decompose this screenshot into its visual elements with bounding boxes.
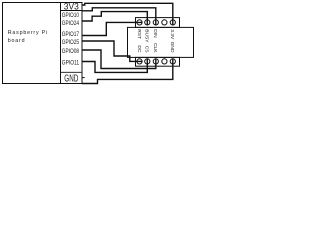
svg-text:Raspberry Pi: Raspberry Pi	[8, 30, 48, 36]
GND pin leg	[82, 77, 85, 79]
wire GND to GND	[82, 59, 173, 84]
svg-text:GPIO24: GPIO24	[62, 20, 80, 27]
wire GPIO11 to CLK	[82, 59, 147, 73]
Raspberry Pi board U1	[3, 3, 61, 84]
svg-text:GPIO17: GPIO17	[62, 31, 80, 38]
svg-text:GPIO11: GPIO11	[62, 60, 80, 67]
svg-text:GPIO08: GPIO08	[62, 48, 80, 55]
svg-text:BUSY: BUSY	[144, 29, 150, 43]
svg-text:GND: GND	[169, 42, 175, 53]
svg-text:GPIO10: GPIO10	[62, 12, 80, 19]
pin DIN circle	[153, 20, 158, 25]
pin DC circle	[137, 59, 142, 64]
svg-text:3.3V: 3.3V	[169, 29, 175, 40]
unused top pin circle	[162, 20, 167, 25]
wire GPIO25 to DC	[82, 41, 142, 61]
pin GND circle (module)	[170, 59, 175, 64]
pin 3.3V circle	[170, 20, 175, 25]
svg-text:RST: RST	[136, 29, 142, 39]
svg-text:CLK: CLK	[152, 43, 158, 53]
svg-text:board: board	[8, 38, 26, 44]
wire 3V3 to 3.3V	[82, 3, 173, 25]
svg-text:DC: DC	[136, 45, 142, 53]
e-paper module body U2	[128, 27, 194, 57]
wire GPIO10 to DIN	[82, 8, 156, 26]
pin BUSY circle	[145, 20, 150, 25]
unused bottom pin circle	[162, 59, 167, 64]
wire GPIO24 to BUSY	[82, 12, 147, 26]
bottom pin header box	[136, 57, 180, 66]
svg-text:CS: CS	[144, 46, 150, 54]
pin CS circle	[145, 59, 150, 64]
svg-text:GPIO25: GPIO25	[62, 39, 80, 46]
wire GPIO08 to CS	[82, 50, 156, 69]
top pin header box	[136, 18, 180, 28]
svg-text:3V3: 3V3	[64, 1, 79, 11]
pin RST circle	[137, 20, 142, 25]
GPIO header column	[61, 3, 83, 84]
svg-text:DIN: DIN	[152, 29, 158, 38]
svg-text:GND: GND	[64, 74, 78, 85]
wire GPIO17 to RST	[82, 22, 142, 35]
pin CLK circle	[153, 59, 158, 64]
